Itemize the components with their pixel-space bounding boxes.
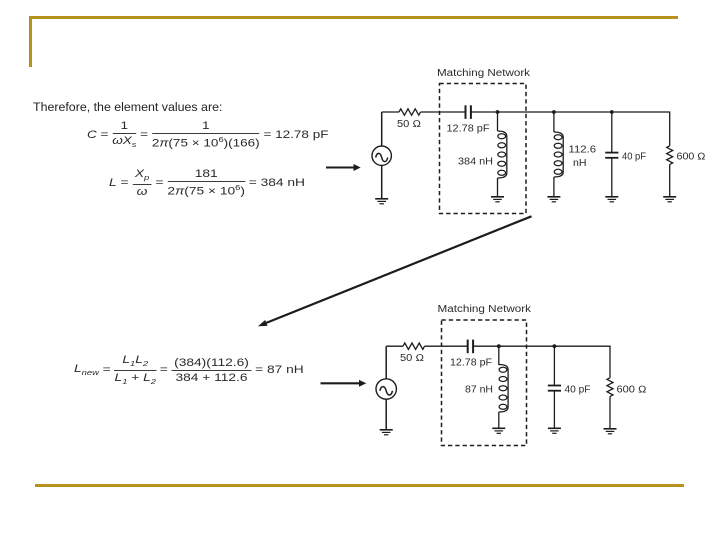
capacitor 40 pF (top circuit, shunt) — [605, 153, 618, 158]
wire: 600 ohm to ground — [669, 164, 671, 196]
ground (under 600 ohm bottom) — [604, 429, 617, 434]
svg-text:40 pF: 40 pF — [565, 385, 591, 396]
wire: node E down to shunt capacitor — [553, 346, 555, 385]
capacitor C 12.78 pF (top circuit, series) — [466, 105, 471, 119]
wire: 600 ohm to ground (bottom) — [609, 396, 611, 428]
label 112.6 nH (two lines) — [569, 145, 597, 170]
wire: resistor to series capacitor (bottom) — [425, 345, 468, 347]
svg-text:112.6: 112.6 — [569, 145, 597, 156]
wire: top rail source to resistor — [382, 111, 399, 113]
node D junction dot (bottom circuit) — [497, 344, 501, 348]
ground (under 40 pF bottom) — [548, 428, 561, 433]
svg-text:nH: nH — [573, 158, 587, 169]
wire: node E to load corner (bottom) — [554, 346, 610, 378]
svg-text:600 Ω: 600 Ω — [677, 152, 706, 163]
wire: node B to node C — [554, 111, 612, 113]
ground (bottom source) — [380, 430, 393, 435]
ground (under 87 nH) — [492, 428, 505, 433]
ground (under L1) — [491, 197, 504, 202]
wire: node A to node B — [498, 111, 554, 113]
wire: shunt capacitor to ground — [611, 158, 613, 197]
svg-text:50 Ω: 50 Ω — [400, 353, 424, 364]
capacitor 40 pF (bottom circuit, shunt) — [548, 386, 561, 391]
svg-text:12.78 pF: 12.78 pF — [447, 124, 490, 135]
wire: node D down to coil — [498, 346, 500, 365]
node A junction dot (top circuit) — [496, 110, 500, 114]
dashed matching-network box (bottom circuit) — [442, 320, 527, 446]
inductor 87 nH (bottom circuit) — [499, 365, 508, 413]
wire: coil to ground (bottom) — [498, 412, 500, 428]
dashed matching-network box (top circuit) — [440, 84, 527, 214]
wire: node D to node E (bottom) — [499, 345, 555, 347]
wire: shunt capacitor to ground (bottom) — [553, 391, 555, 428]
wire: bottom rail source to resistor — [386, 345, 403, 347]
capacitor 12.78 pF (bottom circuit, series) — [468, 340, 473, 354]
text: Therefore, the element values are: — [33, 100, 222, 114]
AC source V1 (bottom circuit) — [376, 346, 396, 429]
wire: coil L1 to ground — [497, 178, 499, 197]
svg-text:Matching Network: Matching Network — [438, 304, 532, 315]
resistor R 50 ohm (top circuit) — [399, 109, 421, 115]
wire: node C to load corner — [612, 112, 670, 146]
resistor R 50 ohm (bottom circuit) — [403, 343, 425, 349]
gold left vertical border line — [29, 16, 32, 67]
node B junction dot — [552, 110, 556, 114]
formula C = 1/(wXs) = 1/(2pi(75x10^6)(166)) = 12.78 pF — [87, 121, 329, 149]
AC source V1 (top circuit) — [372, 112, 391, 199]
svg-text:384 nH: 384 nH — [458, 157, 493, 168]
svg-text:50 Ω: 50 Ω — [397, 119, 421, 130]
wire: node B down to coil L2 — [553, 112, 555, 132]
ground (under 40 pF) — [605, 197, 618, 202]
formula Lnew = L1L2/(L1+L2) = (384)(112.6)/(384+112.6) = 87 nH — [74, 356, 304, 384]
inductor L2 112.6 nH (top circuit) — [554, 132, 563, 177]
svg-text:40 pF: 40 pF — [622, 152, 646, 163]
long diagonal arrow from top circuit matching network to Lnew formula — [258, 216, 532, 326]
inductor L1 384 nH (top circuit) — [498, 131, 507, 178]
gold bottom border line — [35, 484, 684, 487]
svg-text:87 nH: 87 nH — [465, 385, 493, 396]
wire: node A down to coil L1 — [497, 112, 499, 131]
wire: coil L2 to ground — [553, 177, 555, 197]
arrow from first formulas to top circuit — [326, 164, 361, 171]
svg-text:12.78 pF: 12.78 pF — [450, 358, 492, 369]
node C junction dot — [610, 110, 614, 114]
ground (under L2) — [547, 197, 560, 202]
arrow from Lnew formula to bottom circuit — [321, 380, 367, 387]
wire: resistor to series capacitor — [421, 111, 466, 113]
formula L = Xp/w = 181/(2pi(75x10^6)) = 384 nH — [109, 169, 305, 197]
wire: node C down to shunt capacitor — [611, 112, 613, 152]
ground (top source) — [375, 199, 388, 204]
ground (under 600 ohm) — [663, 197, 676, 202]
svg-text:600 Ω: 600 Ω — [617, 385, 647, 396]
gold top horizontal border line — [29, 16, 678, 19]
wire: capacitor to node D (bottom) — [473, 345, 499, 347]
svg-text:Matching Network: Matching Network — [437, 68, 530, 79]
wire: capacitor to node A — [471, 111, 497, 113]
resistor 600 ohm (bottom circuit) — [607, 378, 613, 397]
node E junction dot — [553, 344, 557, 348]
resistor RL 600 ohm (top circuit) — [667, 146, 673, 165]
